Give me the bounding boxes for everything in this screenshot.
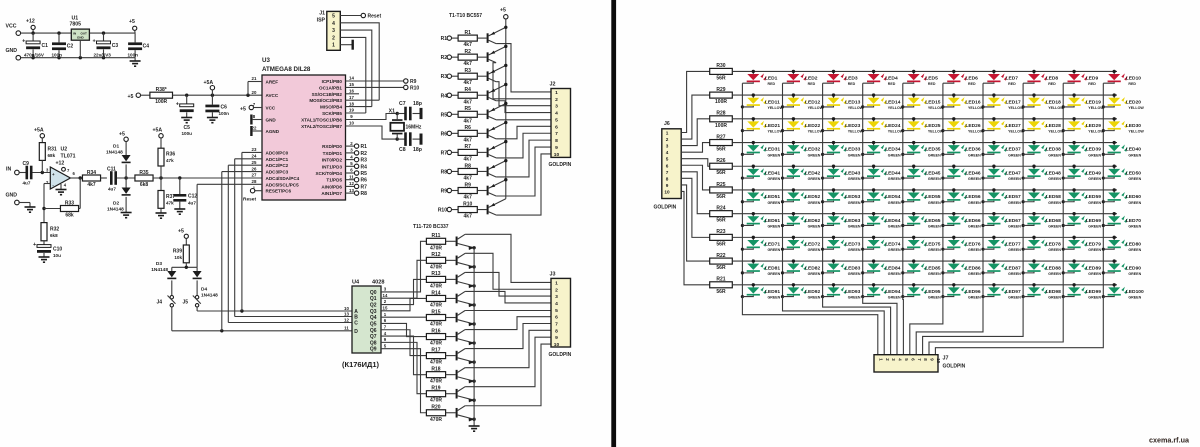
net terminals R1-R8 on PD pins bbox=[346, 145, 355, 147]
transistor T11 BC337 bbox=[456, 237, 458, 247]
resistor R31 68k bbox=[39, 143, 45, 161]
svg-text:ADC0/PC0: ADC0/PC0 bbox=[266, 150, 289, 155]
resistor R10 4k7 bbox=[458, 207, 477, 213]
svg-text:LED66: LED66 bbox=[965, 218, 981, 224]
svg-text:4: 4 bbox=[555, 111, 558, 117]
svg-text:LED96: LED96 bbox=[965, 289, 981, 295]
svg-text:LED87: LED87 bbox=[1006, 265, 1022, 271]
svg-text:R3: R3 bbox=[464, 68, 471, 74]
LED15 YELLOW bbox=[903, 93, 927, 107]
svg-text:VCC: VCC bbox=[266, 106, 276, 111]
svg-text:+5: +5 bbox=[119, 132, 125, 138]
resistor R23 56R bbox=[710, 234, 733, 240]
wire T20 collector to J3 pin 10 bbox=[465, 344, 551, 406]
svg-text:470R: 470R bbox=[430, 360, 442, 366]
svg-text:U4: U4 bbox=[352, 280, 360, 286]
svg-text:LED40: LED40 bbox=[1126, 147, 1142, 153]
svg-text:LED17: LED17 bbox=[1006, 99, 1022, 105]
svg-text:GREEN: GREEN bbox=[808, 248, 821, 252]
svg-text:GREEN: GREEN bbox=[1008, 153, 1021, 157]
svg-text:LED65: LED65 bbox=[925, 218, 941, 224]
svg-text:100u: 100u bbox=[181, 131, 192, 136]
svg-text:LED18: LED18 bbox=[1046, 99, 1062, 105]
svg-text:GREEN: GREEN bbox=[808, 224, 821, 228]
LED54 GREEN bbox=[863, 188, 887, 202]
svg-text:LED8: LED8 bbox=[1046, 76, 1059, 82]
LED62 GREEN bbox=[783, 212, 807, 226]
resistor R3 4k7 bbox=[458, 73, 477, 79]
svg-text:LED29: LED29 bbox=[1086, 123, 1102, 129]
svg-text:LED36: LED36 bbox=[965, 147, 981, 153]
wire 4028 B bbox=[235, 316, 352, 318]
wire Q6 to R17 bbox=[381, 330, 426, 356]
LED45 GREEN bbox=[903, 165, 927, 179]
svg-text:4028: 4028 bbox=[372, 280, 384, 286]
svg-text:R7: R7 bbox=[441, 150, 448, 156]
svg-text:LED35: LED35 bbox=[925, 147, 941, 153]
capacitor C2 100n bbox=[58, 33, 60, 42]
svg-text:GREEN: GREEN bbox=[768, 272, 781, 276]
svg-text:LED78: LED78 bbox=[1046, 242, 1062, 248]
svg-text:5: 5 bbox=[555, 308, 558, 314]
svg-text:LED52: LED52 bbox=[805, 194, 821, 200]
LED73 GREEN bbox=[823, 236, 847, 250]
svg-text:GREEN: GREEN bbox=[768, 296, 781, 300]
svg-text:1N4148: 1N4148 bbox=[107, 207, 124, 213]
svg-text:LED97: LED97 bbox=[1006, 289, 1022, 295]
wire row 2 anode bus bbox=[732, 94, 1117, 96]
svg-text:3: 3 bbox=[555, 104, 558, 110]
LED34 GREEN bbox=[863, 141, 887, 155]
LED31 GREEN bbox=[742, 141, 766, 155]
svg-text:ADC4/SDA/PC4: ADC4/SDA/PC4 bbox=[266, 176, 300, 181]
LED98 GREEN bbox=[1023, 283, 1047, 297]
svg-text:100n: 100n bbox=[219, 111, 230, 116]
wire Q1 to R12 bbox=[381, 260, 426, 298]
svg-text:YELLOW: YELLOW bbox=[768, 106, 784, 110]
wire J6 pin 8 to row 8 bbox=[681, 178, 710, 237]
wire PB1 to R10 bbox=[346, 86, 404, 88]
svg-text:LED72: LED72 bbox=[805, 242, 821, 248]
svg-text:GREEN: GREEN bbox=[768, 201, 781, 205]
svg-text:YELLOW: YELLOW bbox=[928, 130, 944, 134]
svg-text:GREEN: GREEN bbox=[1128, 153, 1141, 157]
svg-text:GREEN: GREEN bbox=[1128, 177, 1141, 181]
LED5 RED bbox=[903, 70, 927, 84]
svg-text:LED42: LED42 bbox=[805, 170, 821, 176]
svg-text:GREEN: GREEN bbox=[1088, 224, 1101, 228]
svg-text:LED89: LED89 bbox=[1086, 265, 1102, 271]
svg-text:LED94: LED94 bbox=[885, 289, 901, 295]
wire T12 collector to J3 pin 2 bbox=[465, 253, 551, 289]
svg-text:+5: +5 bbox=[129, 19, 135, 25]
svg-text:ADC1/PC1: ADC1/PC1 bbox=[266, 157, 289, 162]
wire Q5 to R16 bbox=[381, 323, 426, 336]
LED84 GREEN bbox=[863, 259, 887, 273]
LED41 GREEN bbox=[742, 165, 766, 179]
wire column 1 cathode bus bbox=[741, 83, 743, 296]
svg-text:R9: R9 bbox=[464, 182, 471, 188]
svg-text:R3: R3 bbox=[441, 74, 448, 80]
wire J6 pin 9 to row 9 bbox=[681, 185, 710, 261]
svg-text:MOSI/OC2/PB3: MOSI/OC2/PB3 bbox=[309, 98, 342, 103]
svg-text:1: 1 bbox=[332, 43, 335, 49]
svg-text:+: + bbox=[33, 242, 36, 248]
LED56 GREEN bbox=[943, 188, 967, 202]
svg-text:GREEN: GREEN bbox=[1048, 201, 1061, 205]
ground below R37 bbox=[156, 212, 167, 214]
svg-text:GREEN: GREEN bbox=[1128, 201, 1141, 205]
wire AVCC rail bbox=[173, 94, 263, 96]
LED78 GREEN bbox=[1023, 236, 1047, 250]
svg-text:GREEN: GREEN bbox=[1008, 296, 1021, 300]
LED87 GREEN bbox=[983, 259, 1007, 273]
LED22 YELLOW bbox=[783, 117, 807, 130]
svg-text:RED: RED bbox=[928, 82, 936, 86]
LED28 YELLOW bbox=[1023, 117, 1047, 130]
LED69 GREEN bbox=[1063, 212, 1087, 226]
svg-text:GREEN: GREEN bbox=[968, 153, 981, 157]
svg-text:R9: R9 bbox=[441, 189, 448, 195]
LED81 GREEN bbox=[742, 259, 766, 273]
svg-text:7: 7 bbox=[666, 170, 669, 175]
svg-text:R4: R4 bbox=[464, 87, 471, 93]
LED16 YELLOW bbox=[943, 93, 967, 107]
svg-text:22u/6V3: 22u/6V3 bbox=[94, 52, 112, 57]
svg-text:LED6: LED6 bbox=[965, 76, 978, 82]
wire T15 collector to J3 pin 5 bbox=[465, 310, 551, 312]
LED88 GREEN bbox=[1023, 259, 1047, 273]
svg-text:470R: 470R bbox=[430, 417, 442, 423]
svg-text:GREEN: GREEN bbox=[888, 224, 901, 228]
svg-text:5: 5 bbox=[666, 157, 669, 162]
LED12 YELLOW bbox=[783, 93, 807, 107]
svg-text:4k7: 4k7 bbox=[87, 182, 96, 188]
LED14 YELLOW bbox=[863, 93, 887, 107]
svg-text:D2: D2 bbox=[113, 201, 119, 207]
svg-text:C9: C9 bbox=[23, 161, 30, 167]
wire column 2 cathode bus bbox=[782, 83, 784, 296]
svg-text:R6: R6 bbox=[361, 178, 368, 184]
resistor R6 4k7 bbox=[458, 130, 477, 136]
wire T3 collector to J2 pin 3 bbox=[496, 82, 551, 106]
LED3 RED bbox=[823, 70, 847, 84]
svg-text:14: 14 bbox=[383, 293, 388, 298]
svg-text:20: 20 bbox=[252, 90, 257, 95]
svg-text:YELLOW: YELLOW bbox=[1088, 106, 1104, 110]
svg-text:470u/16V: 470u/16V bbox=[24, 52, 45, 57]
LED57 GREEN bbox=[983, 188, 1007, 202]
svg-text:GREEN: GREEN bbox=[1088, 296, 1101, 300]
resistor R5 4k7 bbox=[458, 111, 477, 117]
svg-text:RED: RED bbox=[888, 82, 896, 86]
svg-text:R12: R12 bbox=[431, 252, 440, 258]
svg-text:9: 9 bbox=[666, 183, 669, 188]
wire J1 pin2 SCK bbox=[340, 37, 366, 113]
svg-text:4k7: 4k7 bbox=[464, 118, 473, 124]
svg-text:LED38: LED38 bbox=[1046, 147, 1062, 153]
svg-text:YELLOW: YELLOW bbox=[808, 106, 824, 110]
LED74 GREEN bbox=[863, 236, 887, 250]
svg-text:470R: 470R bbox=[430, 379, 442, 385]
LED100 GREEN bbox=[1103, 283, 1127, 297]
svg-text:LED19: LED19 bbox=[1086, 99, 1102, 105]
svg-text:Q1: Q1 bbox=[370, 296, 377, 302]
svg-text:100n: 100n bbox=[52, 52, 63, 57]
resistor R4 4k7 bbox=[458, 92, 477, 98]
svg-text:GND: GND bbox=[6, 48, 18, 54]
resistor R16 470R bbox=[426, 334, 445, 340]
wire J6 pin 7 to row 7 bbox=[681, 172, 710, 214]
svg-text:1N4148: 1N4148 bbox=[106, 150, 123, 156]
svg-text:R16: R16 bbox=[431, 328, 440, 334]
svg-text:GREEN: GREEN bbox=[808, 296, 821, 300]
svg-text:LED83: LED83 bbox=[845, 265, 861, 271]
svg-text:R33: R33 bbox=[65, 200, 74, 206]
wire PC0 to 4028 A bbox=[242, 151, 262, 153]
svg-text:23: 23 bbox=[252, 147, 257, 152]
svg-text:LED47: LED47 bbox=[1006, 170, 1022, 176]
LED18 YELLOW bbox=[1023, 93, 1047, 107]
svg-text:6k8: 6k8 bbox=[50, 233, 58, 238]
svg-text:LED57: LED57 bbox=[1006, 194, 1022, 200]
svg-text:LED12: LED12 bbox=[805, 99, 821, 105]
svg-text:R22: R22 bbox=[716, 253, 725, 259]
svg-text:+: + bbox=[176, 101, 179, 107]
svg-text:YELLOW: YELLOW bbox=[928, 106, 944, 110]
svg-text:R1: R1 bbox=[441, 36, 448, 42]
svg-text:YELLOW: YELLOW bbox=[968, 106, 984, 110]
wire J1 pin3 MISO bbox=[340, 30, 372, 107]
wire J1 pin5 Reset bbox=[340, 15, 361, 17]
resistor R14 470R bbox=[426, 295, 445, 301]
capacitor C4 100n bbox=[134, 33, 136, 42]
LED50 GREEN bbox=[1103, 165, 1127, 179]
transistor T16 BC337 bbox=[456, 332, 458, 342]
svg-text:LED33: LED33 bbox=[845, 147, 861, 153]
svg-text:ATMEGA8 DIL28: ATMEGA8 DIL28 bbox=[262, 66, 311, 73]
svg-text:GOLDPIN: GOLDPIN bbox=[654, 205, 677, 211]
transistor T8 BC557 bbox=[487, 167, 489, 177]
svg-text:ADC5/SCL/PC5: ADC5/SCL/PC5 bbox=[266, 182, 300, 187]
wire Q7 to R18 bbox=[381, 336, 426, 375]
node D1 D2 clamp bbox=[124, 176, 127, 179]
LED92 GREEN bbox=[783, 283, 807, 297]
svg-text:4k7: 4k7 bbox=[464, 175, 473, 181]
svg-text:LED20: LED20 bbox=[1126, 99, 1142, 105]
svg-text:LED45: LED45 bbox=[925, 170, 941, 176]
svg-text:LED34: LED34 bbox=[885, 147, 901, 153]
svg-text:R31: R31 bbox=[48, 147, 57, 153]
svg-text:VCC: VCC bbox=[6, 24, 17, 30]
svg-text:R17: R17 bbox=[431, 347, 440, 353]
svg-text:R28: R28 bbox=[716, 111, 725, 117]
svg-text:R34: R34 bbox=[87, 170, 96, 176]
wire button node bbox=[172, 266, 197, 268]
svg-text:AREF: AREF bbox=[266, 80, 279, 85]
svg-text:100R: 100R bbox=[715, 123, 727, 129]
LED38 GREEN bbox=[1023, 141, 1047, 155]
svg-text:10u: 10u bbox=[53, 253, 61, 258]
resistor R13 470R bbox=[426, 276, 445, 282]
svg-text:RED: RED bbox=[808, 82, 816, 86]
LED99 GREEN bbox=[1063, 283, 1087, 297]
resistor R8 4k7 bbox=[458, 168, 477, 174]
svg-text:X1: X1 bbox=[389, 109, 395, 115]
transistor T12 BC337 bbox=[456, 256, 458, 266]
svg-text:GREEN: GREEN bbox=[928, 177, 941, 181]
ground below D2 bbox=[121, 212, 132, 214]
svg-text:LED64: LED64 bbox=[885, 218, 901, 224]
svg-text:LED54: LED54 bbox=[885, 194, 901, 200]
svg-text:LED69: LED69 bbox=[1086, 218, 1102, 224]
svg-text:R2: R2 bbox=[464, 49, 471, 55]
svg-text:GREEN: GREEN bbox=[888, 248, 901, 252]
svg-text:LED82: LED82 bbox=[805, 265, 821, 271]
svg-text:R2: R2 bbox=[361, 151, 368, 157]
svg-text:GND: GND bbox=[6, 193, 18, 199]
svg-text:GREEN: GREEN bbox=[1088, 201, 1101, 205]
wire T1 collector to J2 pin 1 bbox=[496, 44, 551, 92]
wire T14 collector to J3 pin 4 bbox=[465, 291, 551, 303]
svg-text:J6: J6 bbox=[664, 121, 670, 127]
LED46 GREEN bbox=[943, 165, 967, 179]
svg-text:Q9: Q9 bbox=[370, 347, 377, 353]
svg-text:3: 3 bbox=[666, 144, 669, 149]
svg-text:Reset: Reset bbox=[368, 14, 382, 20]
svg-text:28: 28 bbox=[252, 179, 257, 184]
svg-text:GREEN: GREEN bbox=[768, 248, 781, 252]
wire emitter ground rail bbox=[473, 248, 475, 426]
svg-text:4k7: 4k7 bbox=[464, 80, 473, 86]
svg-text:R14: R14 bbox=[431, 290, 440, 296]
svg-text:R24: R24 bbox=[716, 205, 725, 211]
svg-text:9: 9 bbox=[555, 145, 558, 151]
svg-text:Q4: Q4 bbox=[370, 315, 377, 321]
wire J4 to 4028 D bbox=[172, 330, 352, 332]
svg-text:XTAL2/TOSC2/PB7: XTAL2/TOSC2/PB7 bbox=[301, 124, 342, 129]
svg-text:GREEN: GREEN bbox=[1088, 177, 1101, 181]
LED35 GREEN bbox=[903, 141, 927, 155]
LED40 GREEN bbox=[1103, 141, 1127, 155]
svg-text:GREEN: GREEN bbox=[888, 201, 901, 205]
LED72 GREEN bbox=[783, 236, 807, 250]
wire T2 collector to J2 pin 2 bbox=[493, 63, 551, 99]
node R36 R37 bbox=[159, 176, 162, 179]
wire column 3 cathode bus bbox=[822, 83, 824, 296]
wire PB0 to R9 bbox=[346, 80, 404, 82]
wire Q8 to R19 bbox=[381, 342, 426, 393]
svg-text:19: 19 bbox=[349, 108, 354, 113]
svg-text:12: 12 bbox=[349, 181, 354, 186]
svg-text:R8: R8 bbox=[464, 163, 471, 169]
svg-text:R30: R30 bbox=[716, 63, 725, 69]
svg-text:1: 1 bbox=[555, 280, 558, 286]
svg-text:6: 6 bbox=[555, 315, 558, 321]
svg-text:AGND: AGND bbox=[266, 129, 280, 134]
svg-text:T1/PD5: T1/PD5 bbox=[326, 178, 342, 183]
resistor R36 47k bbox=[158, 148, 164, 166]
svg-text:18p: 18p bbox=[413, 101, 422, 107]
resistor R19 470R bbox=[426, 391, 445, 397]
svg-text:18p: 18p bbox=[413, 147, 422, 153]
svg-text:R1: R1 bbox=[464, 30, 471, 36]
LED10 RED bbox=[1103, 70, 1127, 84]
LED9 RED bbox=[1063, 70, 1087, 84]
svg-text:470R: 470R bbox=[430, 398, 442, 404]
svg-text:GREEN: GREEN bbox=[888, 296, 901, 300]
svg-text:10: 10 bbox=[554, 152, 560, 158]
svg-text:LED63: LED63 bbox=[845, 218, 861, 224]
svg-text:GREEN: GREEN bbox=[968, 272, 981, 276]
LED95 GREEN bbox=[903, 283, 927, 297]
transistor T13 BC337 bbox=[456, 275, 458, 285]
LED94 GREEN bbox=[863, 283, 887, 297]
svg-text:C11: C11 bbox=[107, 167, 116, 173]
svg-text:ADC2/PC2: ADC2/PC2 bbox=[266, 163, 289, 168]
svg-text:R19: R19 bbox=[431, 386, 440, 392]
LED2 RED bbox=[783, 70, 807, 84]
svg-text:LED23: LED23 bbox=[845, 123, 861, 129]
wire PB3 stub bbox=[346, 99, 380, 101]
svg-text:24: 24 bbox=[252, 154, 257, 159]
svg-text:GREEN: GREEN bbox=[1048, 153, 1061, 157]
LED44 GREEN bbox=[863, 165, 887, 179]
transistor T2 BC557 bbox=[487, 52, 489, 62]
transistor T5 BC557 bbox=[487, 110, 489, 120]
svg-text:GREEN: GREEN bbox=[1088, 272, 1101, 276]
LED85 GREEN bbox=[903, 259, 927, 273]
svg-text:4u7: 4u7 bbox=[23, 181, 31, 186]
wire T11 collector to J3 pin 1 bbox=[465, 234, 551, 282]
LED36 GREEN bbox=[943, 141, 967, 155]
svg-text:GREEN: GREEN bbox=[1008, 224, 1021, 228]
svg-text:LED3: LED3 bbox=[845, 76, 858, 82]
resistor R9 4k7 bbox=[458, 188, 477, 194]
svg-text:J7: J7 bbox=[943, 356, 949, 362]
svg-text:J5: J5 bbox=[182, 300, 188, 306]
svg-text:GREEN: GREEN bbox=[928, 296, 941, 300]
svg-text:1N4148: 1N4148 bbox=[201, 293, 218, 299]
svg-text:J4: J4 bbox=[156, 300, 162, 306]
svg-text:LED88: LED88 bbox=[1046, 265, 1062, 271]
LED20 YELLOW bbox=[1103, 93, 1127, 107]
wire T19 collector to J3 pin 9 bbox=[465, 337, 551, 387]
svg-text:+12: +12 bbox=[56, 161, 65, 167]
svg-text:GREEN: GREEN bbox=[1008, 248, 1021, 252]
LED86 GREEN bbox=[943, 259, 967, 273]
svg-text:R21: R21 bbox=[716, 277, 725, 283]
wire T10 collector to J2 pin 10 bbox=[496, 154, 551, 215]
svg-text:R10: R10 bbox=[410, 85, 419, 91]
svg-text:GREEN: GREEN bbox=[1048, 177, 1061, 181]
capacitor C7 18p bbox=[397, 113, 406, 115]
svg-text:10: 10 bbox=[349, 121, 354, 126]
svg-text:YELLOW: YELLOW bbox=[1088, 130, 1104, 134]
capacitor C10 10u bbox=[43, 241, 45, 245]
wire column 6 to J7 pin 6 bbox=[910, 297, 943, 355]
svg-text:ADC3/PC3: ADC3/PC3 bbox=[266, 170, 289, 175]
svg-text:GREEN: GREEN bbox=[1128, 296, 1141, 300]
diode D3 1N4148 bbox=[171, 267, 173, 271]
svg-text:GREEN: GREEN bbox=[928, 153, 941, 157]
svg-text:GREEN: GREEN bbox=[848, 153, 861, 157]
svg-text:GREEN: GREEN bbox=[848, 296, 861, 300]
svg-text:LED21: LED21 bbox=[765, 123, 781, 129]
svg-text:2: 2 bbox=[666, 137, 669, 142]
svg-text:R29: R29 bbox=[716, 87, 725, 93]
LED51 GREEN bbox=[742, 188, 766, 202]
